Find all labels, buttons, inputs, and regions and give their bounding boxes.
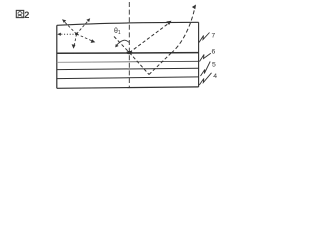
leader squiggle for label 5 bbox=[201, 62, 211, 77]
arrowhead up-right bbox=[86, 18, 90, 22]
scatter ray up-right (dashed) bbox=[77, 20, 89, 34]
scatter center dot bbox=[75, 33, 78, 36]
incident ray (dashed) bbox=[114, 37, 129, 53]
leader squiggle for label 6 bbox=[200, 53, 211, 61]
layer stack left edge bbox=[56, 25, 58, 88]
svg-text:θ1: θ1 bbox=[114, 28, 121, 36]
arrowhead down-right bbox=[91, 39, 96, 43]
scatter ray down-right (dashed) bbox=[77, 34, 94, 41]
arrowhead left ray bbox=[57, 33, 61, 36]
figure title kanji 図 (drawn) bbox=[16, 10, 23, 17]
scatter ray left (dotted) bbox=[60, 33, 74, 35]
layer boundary line 2 bbox=[57, 61, 199, 62]
layer boundary line 4 bbox=[57, 77, 199, 79]
svg-text:2: 2 bbox=[24, 10, 29, 20]
scatter ray down (dashed) bbox=[74, 34, 76, 46]
arrowhead up-left bbox=[62, 19, 66, 23]
leader squiggle for label 7 bbox=[199, 33, 210, 43]
layer stack bottom line bbox=[57, 87, 199, 88]
arrowhead reflected ray bbox=[166, 21, 171, 25]
refracted ray V up branch bbox=[149, 53, 171, 74]
exit ray (curved dashed, arrow at top) bbox=[171, 7, 195, 53]
layer surface line (thick) bbox=[57, 52, 199, 55]
layer boundary line 3 bbox=[57, 68, 199, 69]
layer stack right edge bbox=[198, 22, 200, 87]
angle arc with arrowhead bbox=[116, 40, 129, 46]
svg-text:4: 4 bbox=[213, 73, 217, 80]
reflected ray (dashed, arrow up-right) bbox=[129, 23, 168, 52]
svg-text:5: 5 bbox=[212, 62, 216, 69]
scatter ray up-left (dashed) bbox=[64, 22, 76, 34]
arrowhead exit ray bbox=[192, 5, 196, 10]
normal line (dashed vertical) bbox=[128, 2, 130, 88]
refracted ray V down branch bbox=[129, 53, 149, 75]
incidence point blob bbox=[126, 51, 132, 54]
svg-text:6: 6 bbox=[212, 49, 216, 56]
leader squiggle for label 4 bbox=[199, 73, 211, 85]
arrowhead down bbox=[72, 44, 76, 48]
layer stack top line bbox=[57, 22, 199, 25]
svg-text:7: 7 bbox=[212, 33, 216, 40]
